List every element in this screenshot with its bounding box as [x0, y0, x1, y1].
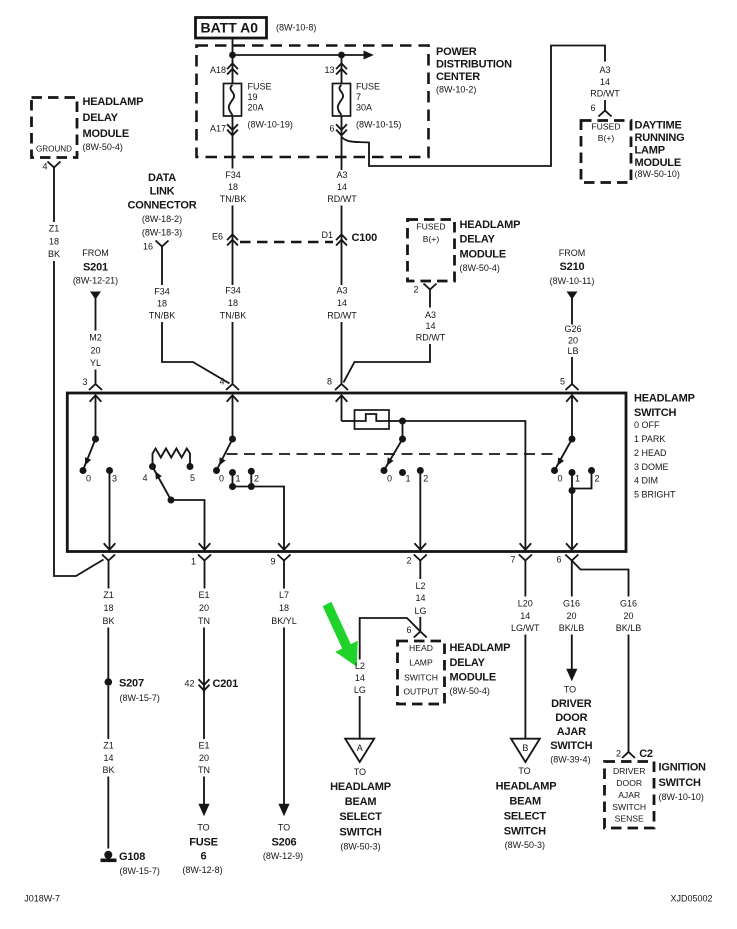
svg-text:RD/WT: RD/WT — [416, 333, 446, 343]
wire to fuse 6 arrow — [203, 777, 205, 805]
svg-text:0: 0 — [387, 473, 392, 483]
label TO HEADLAMP BEAM SELECT SWITCH (A) — [330, 767, 391, 852]
svg-text:0 OFF: 0 OFF — [634, 420, 660, 430]
svg-text:GROUND: GROUND — [36, 144, 72, 154]
svg-text:B(+): B(+) — [598, 133, 615, 143]
svg-text:9: 9 — [270, 556, 275, 566]
green annotation arrow — [323, 602, 358, 667]
svg-text:TO: TO — [278, 822, 290, 832]
label DRIVER DOOR AJAR SWITCH SENSE inside — [612, 766, 646, 824]
mechanical linkage dashed line — [227, 453, 558, 455]
svg-text:14: 14 — [415, 593, 425, 603]
svg-text:YL: YL — [90, 358, 101, 368]
connector chevrons A18 — [227, 63, 238, 74]
svg-text:7: 7 — [356, 92, 361, 102]
wire contacts 1,2 bus to pin 9 — [233, 471, 285, 549]
ignition switch dashed box — [605, 762, 655, 829]
svg-text:19: 19 — [248, 92, 258, 102]
label FUSE 19 20A (8W-10-19) — [248, 81, 293, 129]
contact 0 node (head sw) — [381, 467, 388, 474]
svg-text:1: 1 — [235, 473, 240, 483]
label E1 20 TN — [198, 590, 210, 626]
svg-text:(8W-15-7): (8W-15-7) — [120, 693, 160, 703]
svg-text:HEADLAMP: HEADLAMP — [83, 96, 144, 108]
connector fork pin 7 — [519, 555, 532, 561]
svg-text:SWITCH: SWITCH — [504, 825, 546, 837]
svg-text:14: 14 — [337, 298, 347, 308]
internal arrow down (pin 9) — [278, 543, 290, 549]
svg-text:DAYTIME: DAYTIME — [635, 120, 682, 132]
svg-text:G26: G26 — [564, 324, 581, 334]
svg-text:LG/WT: LG/WT — [511, 623, 540, 633]
label A3 14 RD/WT (lower) — [327, 285, 357, 320]
svg-text:Z1: Z1 — [49, 223, 60, 233]
svg-text:FROM: FROM — [559, 248, 586, 258]
contact 0 node (dome sw) — [80, 467, 87, 474]
switch arm pivot node (bright sw) — [569, 436, 576, 443]
connector tent pin 8 — [335, 384, 348, 390]
wire wiper to pin 1 — [171, 500, 205, 550]
svg-text:(8W-15-7): (8W-15-7) — [120, 866, 160, 876]
label TO HEADLAMP BEAM SELECT SWITCH (B) — [496, 766, 557, 850]
svg-text:(8W-10-2): (8W-10-2) — [436, 85, 476, 95]
contact 1 node (head sw) — [399, 469, 406, 476]
svg-text:E6: E6 — [212, 231, 223, 241]
svg-text:(8W-10-11): (8W-10-11) — [550, 276, 595, 286]
svg-text:TN: TN — [198, 616, 210, 626]
svg-text:TN/BK: TN/BK — [220, 310, 247, 320]
power distribution center dashed box — [197, 46, 429, 158]
svg-text:(8W-50-4): (8W-50-4) — [83, 142, 123, 152]
label M2 20 YL — [89, 332, 102, 368]
wire G16 to door ajar arrow — [571, 635, 573, 670]
svg-text:42: 42 — [184, 678, 194, 688]
svg-text:4 DIM: 4 DIM — [634, 475, 658, 485]
svg-text:A: A — [357, 743, 363, 753]
splice triangle S210 — [567, 292, 578, 300]
svg-text:BK: BK — [48, 249, 60, 259]
svg-text:1: 1 — [405, 473, 410, 483]
wire A3 down to C100 — [341, 116, 343, 170]
svg-text:(8W-50-3): (8W-50-3) — [340, 841, 380, 851]
svg-text:SWITCH: SWITCH — [612, 802, 646, 812]
svg-text:HEADLAMP: HEADLAMP — [450, 642, 511, 654]
label HEADLAMP DELAY MODULE top-left — [83, 96, 144, 152]
pin 5 internal arrow — [566, 395, 578, 439]
svg-text:F34: F34 — [225, 170, 241, 180]
internal arrow down (Z1 pin) — [104, 543, 116, 549]
svg-text:BATT A0: BATT A0 — [201, 20, 259, 36]
svg-text:(8W-10-19): (8W-10-19) — [248, 119, 293, 129]
label POWER DISTRIBUTION CENTER — [436, 46, 512, 94]
connector tent C2 pin 2 — [622, 752, 635, 758]
label L20 14 LG/WT — [511, 598, 540, 633]
contact 2 node (park sw) — [248, 468, 255, 475]
svg-text:F34: F34 — [225, 285, 241, 295]
connector tent HLSO pin 6 — [414, 632, 427, 638]
wire L7 upper — [283, 561, 285, 589]
svg-text:IGNITION: IGNITION — [659, 762, 707, 774]
svg-text:20: 20 — [199, 603, 209, 613]
svg-text:8: 8 — [327, 376, 332, 386]
svg-text:LAMP: LAMP — [635, 145, 665, 157]
wire from BATT A0 down — [232, 39, 234, 55]
svg-text:M2: M2 — [89, 332, 102, 342]
wire Z1 to G108 — [107, 777, 109, 849]
node junction at fuse 7 tap — [338, 52, 345, 59]
svg-text:14: 14 — [520, 611, 530, 621]
svg-text:DOOR: DOOR — [616, 778, 642, 788]
svg-text:G108: G108 — [119, 851, 145, 863]
connector tent pin 3 — [89, 384, 102, 390]
svg-text:2: 2 — [423, 473, 428, 483]
svg-text:TN/BK: TN/BK — [220, 194, 247, 204]
label A3 14 RD/WT (upper) — [327, 170, 357, 204]
wire to switch pin 3 — [95, 370, 97, 385]
svg-text:HEADLAMP: HEADLAMP — [634, 392, 695, 404]
svg-text:BK/YL: BK/YL — [271, 616, 297, 626]
svg-text:DELAY: DELAY — [83, 112, 119, 124]
wire L2 to HLSO pin 6 — [419, 617, 421, 632]
svg-text:L20: L20 — [518, 598, 533, 608]
svg-text:20A: 20A — [248, 102, 264, 112]
battery feed box BATT A0 — [196, 18, 267, 39]
svg-text:A3: A3 — [336, 170, 347, 180]
wire breaker to junction — [389, 420, 403, 422]
svg-text:0: 0 — [557, 473, 562, 483]
wire pin 8 to circuit breaker — [342, 420, 355, 422]
svg-text:A3: A3 — [599, 65, 610, 75]
svg-text:(8W-39-4): (8W-39-4) — [550, 754, 590, 764]
label FROM S201 — [73, 248, 118, 286]
headlamp delay module (ground) dashed box — [32, 98, 78, 158]
label L2 14 LG — [414, 581, 426, 616]
label A3 14 RD/WT (HDM) — [416, 310, 446, 343]
wire to switch pin 8 — [341, 322, 343, 384]
svg-text:6: 6 — [556, 554, 561, 564]
svg-text:1: 1 — [575, 473, 580, 483]
wire D1 to lower label — [341, 206, 343, 286]
svg-text:20: 20 — [199, 753, 209, 763]
svg-text:DOOR: DOOR — [555, 712, 587, 724]
wire junction to head sw pivot — [402, 421, 404, 439]
svg-text:3: 3 — [112, 473, 117, 483]
svg-text:(8W-50-3): (8W-50-3) — [505, 840, 545, 850]
svg-text:(8W-12-21): (8W-12-21) — [73, 276, 118, 286]
wire G16 second branch — [572, 561, 629, 597]
svg-text:POWER: POWER — [436, 46, 477, 58]
svg-text:2: 2 — [594, 473, 599, 483]
svg-text:14: 14 — [600, 77, 610, 87]
contact 0 node (bright sw) — [551, 467, 558, 474]
svg-text:DELAY: DELAY — [450, 657, 486, 669]
svg-text:3: 3 — [82, 377, 87, 387]
wire branch curve to daytime running lamp module — [342, 46, 606, 167]
svg-text:B: B — [522, 743, 528, 753]
svg-text:6: 6 — [201, 851, 207, 863]
svg-text:C201: C201 — [213, 678, 239, 690]
svg-text:TN/BK: TN/BK — [149, 310, 176, 320]
wire G16 first — [571, 561, 573, 597]
connector fork HDM pin 2 — [424, 284, 437, 290]
svg-text:HEAD: HEAD — [409, 643, 433, 653]
svg-text:A17: A17 — [210, 123, 226, 133]
label G26 20 LB — [564, 324, 581, 356]
svg-text:TN: TN — [198, 765, 210, 775]
switch arm park — [217, 439, 233, 470]
svg-text:B(+): B(+) — [423, 234, 440, 244]
contact 1 node (bright sw) — [569, 469, 576, 476]
wire to E6 — [232, 206, 234, 286]
svg-text:AJAR: AJAR — [618, 790, 640, 800]
svg-text:SWITCH: SWITCH — [634, 407, 676, 419]
svg-text:FUSE: FUSE — [189, 837, 218, 849]
wire E1 upper — [204, 561, 206, 589]
svg-text:FUSED: FUSED — [591, 121, 620, 131]
connector tent DRL pin 6 — [599, 111, 612, 117]
connector chevrons 13 — [336, 63, 347, 74]
svg-text:RUNNING: RUNNING — [635, 132, 685, 144]
arrowhead to S206 — [278, 804, 289, 817]
svg-text:A3: A3 — [425, 310, 436, 320]
svg-text:18: 18 — [279, 603, 289, 613]
svg-text:0: 0 — [219, 473, 224, 483]
svg-text:E1: E1 — [198, 590, 209, 600]
switch arm bright — [555, 439, 572, 470]
label L2 14 LG (branch) — [354, 661, 366, 695]
splice triangle S201 — [90, 292, 101, 300]
wiper pivot node — [168, 497, 175, 504]
svg-text:5: 5 — [560, 376, 565, 386]
switch arm head — [385, 439, 403, 470]
svg-text:LG: LG — [414, 606, 426, 616]
headlamp delay module fused B+ dashed box — [408, 220, 455, 282]
svg-text:CENTER: CENTER — [436, 71, 480, 83]
svg-text:RD/WT: RD/WT — [590, 89, 620, 99]
svg-text:(8W-10-8): (8W-10-8) — [276, 23, 316, 33]
svg-text:RD/WT: RD/WT — [327, 194, 357, 204]
svg-text:SWITCH: SWITCH — [659, 777, 701, 789]
fuse 7 30A — [333, 84, 351, 117]
wire into fuse 7 — [341, 55, 343, 84]
svg-text:MODULE: MODULE — [83, 128, 129, 140]
label F34 18 TN/BK (fuse 19 col) — [220, 170, 247, 204]
label Z1 14 BK — [102, 740, 114, 775]
svg-text:L2: L2 — [355, 661, 365, 671]
svg-text:AJAR: AJAR — [557, 726, 586, 738]
svg-text:TO: TO — [197, 822, 209, 832]
pin 8 internal arrow — [336, 395, 348, 421]
internal arrow down (pin 6) — [566, 543, 578, 549]
svg-text:LG: LG — [354, 685, 366, 695]
svg-text:OUTPUT: OUTPUT — [403, 686, 439, 696]
svg-text:18: 18 — [228, 298, 238, 308]
svg-text:13: 13 — [324, 65, 334, 75]
label HEADLAMP DELAY MODULE (bottom) — [450, 642, 511, 696]
svg-text:TO: TO — [564, 684, 576, 694]
svg-text:BK/LB: BK/LB — [559, 623, 585, 633]
svg-text:L7: L7 — [279, 590, 289, 600]
connector chevrons A17 — [227, 124, 238, 135]
svg-text:FROM: FROM — [82, 248, 109, 258]
connector chevrons C201 — [199, 679, 210, 690]
svg-text:1: 1 — [191, 556, 196, 566]
connector fork ground pin 4 — [48, 162, 61, 168]
svg-text:HEADLAMP: HEADLAMP — [460, 219, 521, 231]
pin 3 internal arrow — [90, 395, 102, 439]
svg-text:SWITCH: SWITCH — [404, 672, 438, 682]
svg-text:Z1: Z1 — [103, 740, 114, 750]
svg-text:2: 2 — [616, 749, 621, 759]
wire E1 to C201 — [203, 628, 205, 740]
label HEADLAMP SWITCH — [634, 392, 695, 499]
wire DLC F34 — [161, 247, 163, 286]
svg-text:S207: S207 — [119, 677, 144, 689]
node junction at battery bus left — [229, 52, 236, 59]
svg-text:C100: C100 — [352, 232, 378, 244]
svg-text:BK: BK — [102, 616, 114, 626]
wire S207 to lower label — [107, 686, 109, 739]
internal arrow down (pin 7) — [520, 543, 532, 549]
label FUSE 7 30A (8W-10-15) — [356, 81, 401, 129]
svg-text:16: 16 — [143, 241, 153, 251]
svg-text:G16: G16 — [620, 598, 637, 608]
svg-text:14: 14 — [103, 753, 113, 763]
contact 2 node (bright sw) — [588, 467, 595, 474]
wire L2 upper — [419, 561, 421, 580]
svg-text:LB: LB — [567, 346, 578, 356]
connector C100 dashed line — [240, 241, 333, 244]
label L7 18 BK/YL — [271, 590, 297, 626]
svg-text:(8W-10-10): (8W-10-10) — [659, 792, 704, 802]
svg-text:S210: S210 — [560, 261, 585, 273]
svg-text:LINK: LINK — [150, 186, 175, 198]
connector chevrons D1 — [336, 234, 347, 245]
label G16 20 BK/LB (first) — [559, 598, 585, 633]
svg-text:SELECT: SELECT — [504, 810, 547, 822]
svg-text:(8W-12-8): (8W-12-8) — [182, 865, 222, 875]
dimmer wiper arm with arrowhead — [152, 469, 171, 501]
contact 0 node (park sw) — [213, 467, 220, 474]
wire to pin 6 — [571, 491, 573, 550]
wire A3 from HDM — [429, 290, 431, 308]
label S207 (8W-15-7) — [119, 677, 160, 703]
resistor (dimmer) — [153, 449, 191, 467]
svg-text:5: 5 — [190, 473, 195, 483]
wire Z1 upper segment — [53, 168, 55, 223]
svg-text:20: 20 — [623, 611, 633, 621]
svg-text:BEAM: BEAM — [345, 796, 377, 808]
svg-text:3 DOME: 3 DOME — [634, 462, 669, 472]
wire L20 to B triangle — [524, 635, 526, 739]
label TO DRIVER DOOR AJAR SWITCH (8W-39-4) — [550, 684, 592, 764]
wire Z1 down left side — [54, 261, 104, 576]
svg-text:(8W-50-10): (8W-50-10) — [635, 169, 680, 179]
label DAYTIME RUNNING LAMP MODULE — [635, 120, 685, 180]
arrowhead to driver door ajar switch — [566, 669, 577, 682]
svg-text:4: 4 — [142, 473, 147, 483]
svg-text:2: 2 — [413, 284, 418, 294]
svg-text:DISTRIBUTION: DISTRIBUTION — [436, 59, 512, 71]
connector tent pin 4 — [226, 384, 239, 390]
svg-text:FUSED: FUSED — [416, 221, 445, 231]
wire to switch pin 4 — [232, 322, 234, 384]
connector fork pin 2 — [414, 555, 427, 561]
connector fork DLC pin 16 — [156, 241, 169, 247]
label E1 20 TN lower — [198, 740, 210, 775]
connector triangle B — [511, 739, 540, 762]
svg-text:18: 18 — [157, 298, 167, 308]
svg-text:20: 20 — [90, 345, 100, 355]
label A3 14 RD/WT (DRL feed) — [590, 65, 620, 99]
svg-text:S201: S201 — [83, 261, 108, 273]
svg-text:SWITCH: SWITCH — [550, 740, 592, 752]
wire HDM to switch pin 8 — [344, 344, 431, 383]
wire junction to pin 7 — [403, 421, 526, 550]
fuse 19 20A — [224, 84, 242, 117]
wire F34 out of PDC — [232, 116, 234, 169]
svg-text:XJD05002: XJD05002 — [671, 893, 713, 903]
svg-text:DRIVER: DRIVER — [551, 698, 592, 710]
svg-text:(8W-50-4): (8W-50-4) — [460, 263, 500, 273]
label F34 18 TN/BK (lower) — [220, 285, 247, 320]
connector fork pin 1 — [198, 555, 211, 561]
label Z1 18 BK — [102, 590, 114, 626]
wire contact 3 to bottom pin — [109, 471, 111, 550]
svg-text:14: 14 — [425, 321, 435, 331]
switch arm pivot node (park sw) — [229, 436, 236, 443]
svg-text:TO: TO — [354, 767, 366, 777]
svg-text:FUSE: FUSE — [356, 81, 380, 91]
wire to switch pin 5 — [571, 357, 573, 384]
wire to DRL pin 6 — [604, 100, 606, 111]
wire contacts 1,2 join — [572, 471, 592, 491]
svg-text:6: 6 — [406, 625, 411, 635]
svg-text:(8W-12-9): (8W-12-9) — [263, 851, 303, 861]
svg-text:2 HEAD: 2 HEAD — [634, 448, 667, 458]
svg-text:BEAM: BEAM — [509, 795, 541, 807]
connector fork Z1 bottom pin — [102, 555, 115, 561]
ground G108 symbol — [101, 851, 117, 861]
headlamp switch box — [67, 393, 626, 552]
svg-text:C2: C2 — [639, 748, 653, 760]
arrowhead to FUSE 6 — [198, 804, 209, 817]
node junction breaker out — [399, 418, 406, 425]
wire contact 2 to pin 2 — [419, 471, 421, 550]
svg-text:(8W-18-2): (8W-18-2) — [142, 214, 182, 224]
label HEAD LAMP SWITCH OUTPUT inside — [403, 643, 439, 697]
svg-text:CONNECTOR: CONNECTOR — [128, 200, 197, 212]
wire to A triangle — [359, 696, 361, 739]
switch arm pivot node (dome sw) — [92, 436, 99, 443]
label TO FUSE 6 (8W-12-8) — [182, 822, 222, 875]
svg-text:TO: TO — [518, 766, 530, 776]
svg-text:LAMP: LAMP — [409, 657, 433, 667]
svg-text:0: 0 — [86, 473, 91, 483]
svg-text:J018W-7: J018W-7 — [24, 893, 60, 903]
svg-text:BK: BK — [102, 765, 114, 775]
wire L20 upper — [524, 561, 526, 597]
wire G26 — [571, 295, 573, 325]
node junction bright contacts — [569, 487, 576, 494]
svg-text:E1: E1 — [198, 740, 209, 750]
svg-text:DRIVER: DRIVER — [613, 766, 645, 776]
svg-text:MODULE: MODULE — [450, 671, 496, 683]
switch arm dome — [83, 439, 95, 470]
label FUSED B(+) inside DRL — [591, 121, 620, 143]
svg-text:18: 18 — [49, 236, 59, 246]
label TO S206 (8W-12-9) — [263, 822, 303, 861]
